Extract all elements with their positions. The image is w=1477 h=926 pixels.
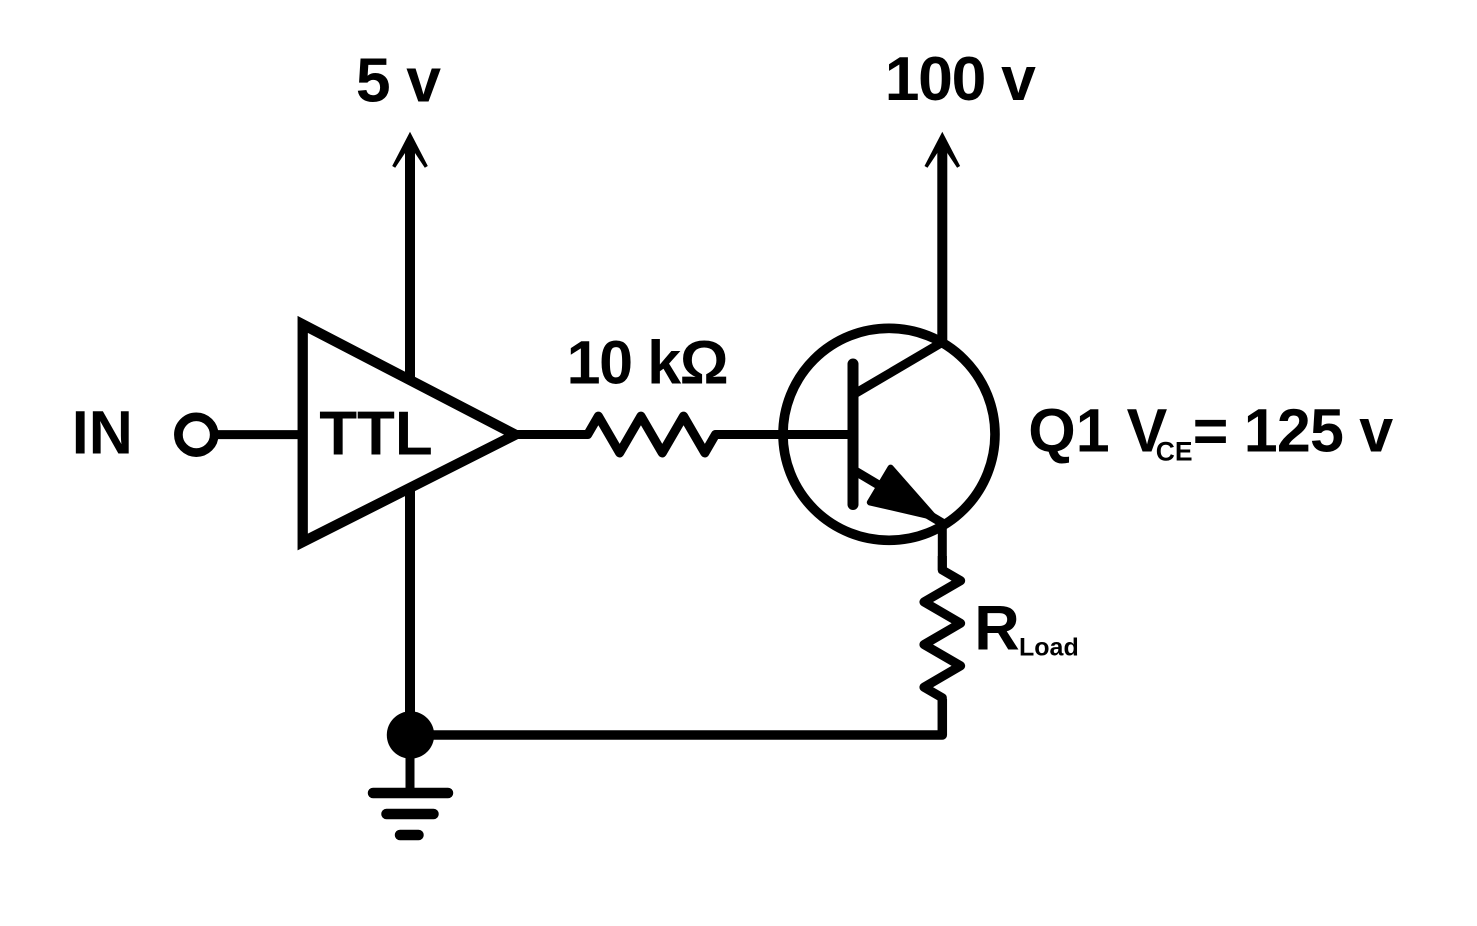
resistor R_Load zigzag [924, 556, 961, 710]
transistor Q1 emitter arrowhead [870, 468, 935, 518]
power arrow 5V [392, 132, 428, 168]
svg-text:TTL: TTL [319, 399, 433, 468]
wire load resistor bottom to ground node [410, 699, 942, 735]
wire resistor R1 to transistor base (crosses circle edge) [716, 430, 854, 439]
transistor Q1 emitter stroke [854, 470, 943, 523]
ground bar 1 [373, 788, 448, 799]
transistor Q1 collector stroke [854, 342, 943, 394]
power arrow 100V [925, 132, 961, 168]
wire 5V supply rail (vertical, runs under TTL buffer down to ground node) [405, 143, 415, 735]
node IN input terminal (open circle) [178, 417, 214, 453]
wire input terminal to buffer [213, 430, 303, 439]
svg-text:IN: IN [72, 398, 133, 466]
wire buffer output to resistor R1 [515, 430, 587, 439]
wire collector to 100V rail [937, 143, 947, 345]
svg-text:10 kΩ: 10 kΩ [567, 328, 728, 396]
svg-text:100 v: 100 v [885, 44, 1036, 114]
ground bar 3 [400, 830, 419, 841]
svg-text:5 v: 5 v [356, 45, 441, 115]
ground stem [406, 735, 415, 794]
transistor Q1 base bar [848, 364, 859, 505]
svg-text:= 125 v: = 125 v [1193, 397, 1393, 465]
svg-text:Load: Load [1019, 634, 1079, 662]
wire emitter down to load resistor [938, 521, 947, 570]
svg-text:Q1 V: Q1 V [1028, 397, 1167, 465]
svg-text:R: R [974, 594, 1020, 664]
junction ground node dot [387, 711, 434, 758]
svg-text:CE: CE [1156, 436, 1193, 466]
ground bar 2 [387, 809, 434, 820]
resistor R1 10k zigzag [582, 416, 721, 453]
transistor Q1 body circle [783, 328, 995, 540]
buffer U1 TTL (triangle) [303, 324, 516, 542]
